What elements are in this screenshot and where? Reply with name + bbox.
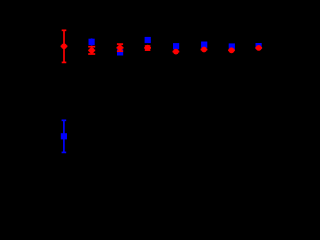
red x-error line point 8 [255,47,262,49]
red x-error line point 5 [173,51,180,53]
plot background [0,0,300,203]
red circle marker point 8 [256,45,262,51]
red circle marker point 1 [61,43,67,49]
blue square marker point 2 [89,39,95,45]
blue square marker point 7 [229,43,235,49]
red x-error line point 6 [201,49,208,51]
red series error bar point 2 [88,47,95,54]
blue error bar stub point 2 [91,38,93,45]
blue square marker point 1 [61,133,67,139]
red circle marker point 6 [201,47,207,53]
red circle marker point 2 [89,48,95,54]
red circle marker point 4 [145,45,151,51]
red circle marker point 3 [117,45,123,51]
blue square marker point 8 [256,43,262,49]
red circle marker point 7 [229,47,235,53]
red circle marker point 5 [173,49,179,55]
blue square marker point 5 [173,43,179,49]
red series error bar point 3 [117,44,124,51]
blue square marker point 6 [201,42,207,48]
blue series error bar point 1 [62,120,67,152]
blue square marker point 4 [145,37,151,43]
red series error bar point 4 [144,46,151,50]
red x-error line point 7 [228,49,235,51]
blue square marker point 3 [117,49,123,55]
red series error bar point 1 [61,30,68,62]
